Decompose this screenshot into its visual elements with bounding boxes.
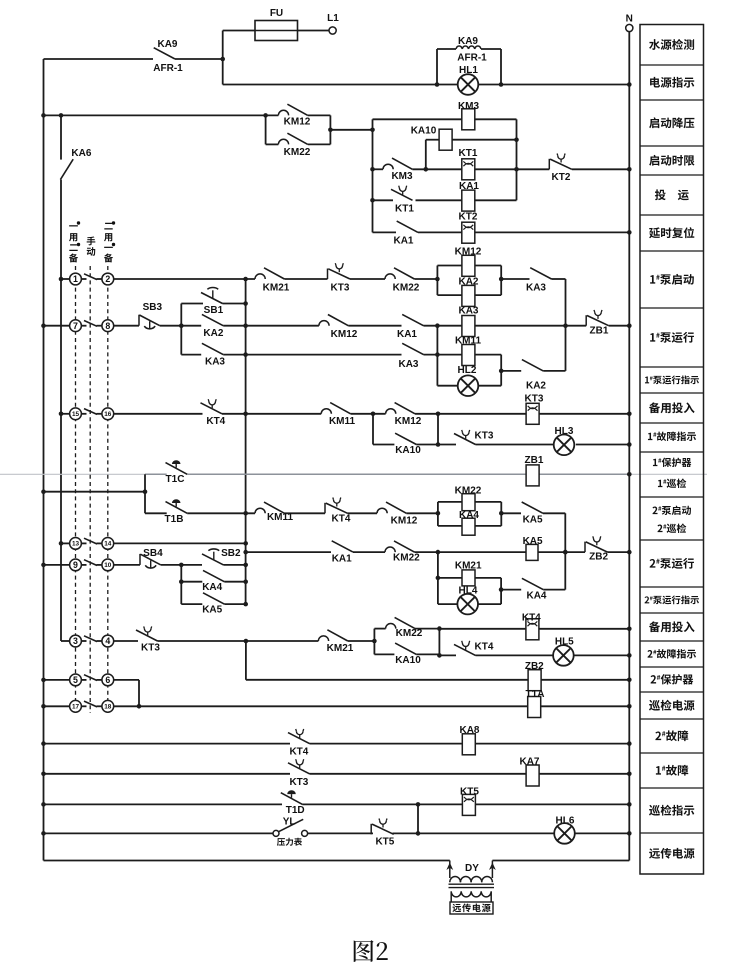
svg-text:KA1: KA1: [459, 181, 479, 192]
terminal 15: [70, 408, 82, 420]
contact KA10 rung F: [395, 433, 416, 444]
wire vert x437 pump2: [437, 552, 439, 604]
contact KM21: [255, 268, 284, 279]
wire N bus: [628, 32, 630, 861]
svg-text:KA9: KA9: [458, 36, 478, 47]
svg-text:KA9: KA9: [157, 39, 177, 50]
coil KA2: [462, 285, 475, 306]
wire rung KM12 block: [44, 114, 331, 116]
svg-text:17: 17: [72, 704, 80, 711]
label selector mode manual: [87, 236, 96, 245]
contact KA5 branch: [203, 593, 224, 604]
lamp HL4: [457, 594, 478, 615]
contact KA3 rung A: [530, 268, 551, 279]
wire rung B: [114, 325, 630, 327]
wire terminal stubs 1-2: [81, 278, 86, 280]
junction block3 bottom: [437, 653, 442, 658]
coil KT2: [462, 222, 475, 243]
contact selector 17-18: [84, 701, 97, 707]
contact KM12 T1B: [377, 502, 406, 513]
wire T1 feeder: [44, 474, 146, 513]
wire terminal stubs 7-8: [81, 325, 86, 327]
svg-text:KM12: KM12: [284, 117, 311, 128]
contact KM11 T1B: [255, 502, 284, 513]
wire KM12 coil branch: [437, 265, 501, 267]
junction KM block left: [263, 113, 268, 118]
svg-text:10: 10: [104, 562, 112, 569]
wire artifact line: [0, 473, 707, 475]
svg-text:KA1: KA1: [397, 329, 417, 340]
wire vert x372: [372, 119, 374, 232]
svg-text:ZB1: ZB1: [525, 455, 544, 466]
contact YL (pressure): [273, 830, 279, 836]
contact KM22 rung 3-4: [386, 617, 415, 628]
svg-text:T1D: T1D: [286, 805, 305, 816]
wire rung KA7: [44, 773, 630, 775]
svg-text:T1B: T1B: [165, 514, 184, 525]
label box standby2: [649, 621, 695, 632]
junction block2 out: [499, 511, 504, 516]
lamp HL2: [458, 375, 479, 396]
wire vert x516: [516, 119, 518, 200]
junction xV KA4: [243, 579, 248, 584]
transformer core: [449, 883, 495, 885]
junction xV 13-14: [243, 541, 248, 546]
coil KA4: [462, 518, 475, 535]
junction N KT4: [627, 627, 632, 632]
label box delay reset: [649, 227, 694, 238]
wire t7 left: [44, 325, 70, 327]
wire left bus L: [43, 59, 45, 861]
label box in service: [655, 189, 689, 200]
terminal 18: [102, 700, 114, 712]
junction KM block out: [328, 128, 333, 133]
wire rung C: [246, 354, 502, 356]
terminal 1: [70, 273, 82, 285]
wire KA10 coil rung: [426, 140, 517, 170]
contact KM11 rung E: [321, 403, 350, 414]
contact KT4 rung E: [201, 399, 223, 414]
junction N rung B: [627, 323, 632, 328]
wire block out: [330, 129, 372, 131]
coil KA10: [439, 129, 452, 150]
svg-text:KT1: KT1: [395, 203, 414, 214]
wire rung YL: [44, 832, 630, 834]
svg-text:KA6: KA6: [71, 148, 91, 159]
contact selector 5-6: [84, 675, 97, 681]
svg-text:KA10: KA10: [395, 445, 421, 456]
junction N HL1: [627, 82, 632, 87]
svg-text:KA3: KA3: [398, 359, 418, 370]
svg-text:KA10: KA10: [411, 126, 437, 137]
junction 6-18: [137, 704, 142, 709]
svg-text:9: 9: [73, 560, 78, 570]
label box water detect: [649, 39, 694, 50]
svg-text:KM22: KM22: [396, 628, 423, 639]
wire KA2 coil branch: [437, 294, 501, 296]
svg-text:KT5: KT5: [375, 837, 394, 848]
svg-text:8: 8: [105, 321, 110, 331]
svg-text:13: 13: [72, 541, 80, 548]
wire KA3 contact: [501, 278, 565, 280]
svg-text:KA4: KA4: [526, 591, 546, 602]
contact KA1 rung B: [402, 314, 423, 325]
terminal 7: [70, 320, 82, 332]
contact KM22 rung B2: [385, 541, 414, 552]
junction N rung E: [627, 412, 632, 417]
svg-text:KM22: KM22: [284, 147, 311, 158]
label box pump2 startb: [657, 523, 686, 533]
junction x372 KM3 rung: [370, 167, 375, 172]
contact KM3: [383, 158, 412, 169]
coil KT5: [462, 794, 475, 815]
svg-text:AFR-1: AFR-1: [457, 53, 487, 64]
transformer DY primary: [450, 876, 461, 882]
label box power ind: [650, 77, 694, 88]
junction N KT5: [627, 802, 632, 807]
terminal 16: [102, 408, 114, 420]
terminal 8: [102, 320, 114, 332]
svg-text:HL2: HL2: [458, 365, 477, 376]
svg-text:KT3: KT3: [141, 643, 160, 654]
junction rung B2 coil: [436, 550, 441, 555]
svg-text:T1A: T1A: [526, 689, 545, 700]
label box pump1 start: [650, 274, 694, 285]
junction T1 split: [143, 489, 148, 494]
contact SB2: [202, 549, 224, 565]
svg-text:6: 6: [105, 675, 110, 685]
coil KA8: [462, 734, 475, 755]
terminal 4: [102, 635, 114, 647]
coil KM11: [462, 345, 475, 366]
junction KA10 tap: [424, 167, 429, 172]
svg-text:N: N: [626, 14, 633, 25]
label YL chinese: [277, 838, 302, 846]
label box standby1: [649, 402, 695, 413]
contact SB4: [140, 554, 161, 568]
wire t15 left: [61, 413, 70, 415]
wire terminal stubs 5-6: [81, 679, 86, 681]
contact selector 15-16: [84, 409, 97, 415]
svg-text:KA2: KA2: [458, 276, 478, 287]
wire KA5 contact: [501, 512, 565, 514]
svg-text:KA1: KA1: [393, 235, 413, 246]
svg-text:KT3: KT3: [289, 777, 308, 788]
svg-text:KA3: KA3: [458, 305, 478, 316]
contact KA9 AFR-1: [154, 48, 175, 59]
contact selector 9-10: [84, 560, 97, 566]
wire terminal stubs 13-14: [81, 542, 86, 544]
contact KM12: [278, 104, 307, 115]
svg-text:KM21: KM21: [455, 561, 482, 572]
junction x565 rung B2: [563, 550, 568, 555]
svg-text:4: 4: [105, 636, 110, 646]
svg-text:KM12: KM12: [391, 516, 418, 527]
wire vert x501 pump1: [500, 355, 502, 386]
label box pump2 starta: [652, 506, 690, 515]
wire rung 5-6: [44, 680, 140, 706]
svg-text:KM12: KM12: [395, 416, 422, 427]
contact KA1 rung B2: [332, 541, 353, 552]
junction x516 KT1: [514, 167, 519, 172]
contact KM12 rung B: [319, 315, 348, 326]
junction N HL6: [627, 831, 632, 836]
svg-text:KA2: KA2: [203, 328, 223, 339]
svg-text:KM3: KM3: [391, 171, 413, 182]
junction KA6 branch: [59, 113, 64, 118]
junction x565 B2 tap: [563, 550, 568, 555]
junction bus 9: [41, 563, 46, 568]
label box start stepdown: [649, 117, 694, 128]
junction x61 t15: [59, 412, 64, 417]
coil KA3: [462, 316, 475, 337]
contact KM12 rung E: [386, 403, 415, 414]
svg-text:KT4: KT4: [332, 514, 351, 525]
junction bus KA8: [41, 741, 46, 746]
svg-text:KM11: KM11: [329, 416, 356, 427]
svg-text:KT2: KT2: [552, 172, 571, 183]
svg-text:5: 5: [73, 675, 78, 685]
svg-text:KT1: KT1: [459, 148, 478, 159]
junction x516 KA10: [514, 137, 519, 142]
junction bus YL: [41, 831, 46, 836]
coil T1A: [528, 697, 541, 718]
coil KT4: [526, 619, 539, 640]
svg-text:7: 7: [73, 321, 78, 331]
wire terminal stubs 15-16: [81, 413, 86, 415]
contact ZB1 (protector): [586, 310, 609, 326]
wire KA2 bypass: [501, 370, 565, 372]
wire rung 3-4: [61, 640, 374, 642]
label box fault2: [655, 730, 688, 741]
coil ZB1: [526, 465, 539, 486]
label box remote power: [649, 848, 694, 859]
wire xV2 drop: [246, 641, 629, 680]
wire fuse feed: [223, 30, 329, 32]
svg-text:KT4: KT4: [475, 641, 494, 652]
svg-text:KA8: KA8: [459, 725, 479, 736]
terminal 3: [70, 635, 82, 647]
junction rung C coil: [435, 352, 440, 357]
junction xV SB1: [243, 301, 248, 306]
junction bus KA7: [41, 772, 46, 777]
contact KA2: [202, 314, 223, 325]
wire KT1 contact rung: [373, 199, 517, 201]
contact selector 1-2: [84, 274, 97, 280]
wire KT4 coil rung: [439, 628, 629, 630]
wire KA4 branch: [181, 581, 245, 583]
wire rung A: [114, 278, 438, 280]
junction block2 in: [436, 511, 441, 516]
svg-text:KA5: KA5: [523, 536, 543, 547]
svg-text:KT3: KT3: [525, 393, 544, 404]
lamp HL5: [553, 645, 574, 666]
wire KA3 branch: [181, 354, 245, 356]
junction KA10 loop right: [436, 412, 441, 417]
svg-text:KA5: KA5: [202, 605, 222, 616]
transformer DY feeders: [449, 861, 451, 879]
svg-text:ZB1: ZB1: [590, 326, 609, 337]
junction xV rung B: [243, 323, 248, 328]
contact KT1 (NC time): [391, 186, 413, 201]
wire KM22 loop: [266, 115, 331, 144]
junction N ZB1: [627, 472, 632, 477]
junction bus t7: [41, 323, 46, 328]
wire KA1 contact rung: [373, 231, 630, 233]
wire vert x437 pump1: [436, 326, 438, 386]
wire rung 17-18: [44, 705, 630, 707]
contact KA10 rung 3-4: [395, 643, 416, 654]
contact KT3 (NC time): [328, 263, 351, 279]
junction KA2 tap: [499, 369, 504, 374]
junction N KA8: [627, 741, 632, 746]
contact T1C: [166, 460, 188, 474]
contact KA3 rung C: [402, 343, 423, 354]
label box pump1 run ind: [645, 375, 699, 384]
junction N T1A: [627, 704, 632, 709]
wire rung E: [114, 413, 630, 415]
junction N HL5: [627, 653, 632, 658]
wire terminal stubs 9-10: [81, 564, 86, 566]
contact KA3 branch: [202, 343, 223, 354]
wire SB4 bracket: [180, 565, 182, 604]
coil KA9 (winding): [456, 46, 462, 49]
svg-text:KA10: KA10: [395, 655, 421, 666]
svg-text:2: 2: [105, 274, 110, 284]
coil KM21: [462, 570, 475, 586]
wire KM3 coil rung: [373, 118, 517, 120]
junction xV 9-10: [243, 563, 248, 568]
svg-text:KM21: KM21: [263, 283, 290, 294]
contact SB3: [139, 315, 160, 329]
junction block3 top: [437, 626, 442, 631]
svg-text:KA3: KA3: [526, 283, 546, 294]
svg-text:KM12: KM12: [331, 329, 358, 340]
contact KT4 NC HL5: [454, 641, 476, 656]
contact KA5 rung: [522, 502, 543, 513]
label box protector1a: [653, 458, 691, 467]
contact ZB2 (protector): [585, 536, 608, 552]
wire KT5 vert: [417, 804, 419, 833]
junction YL KT5: [416, 831, 421, 836]
label selector dots 2: [112, 221, 115, 224]
contact selector 3-4: [84, 636, 97, 642]
wire SB bracket: [180, 304, 182, 355]
contact KA4 bypass: [522, 578, 543, 589]
junction xV rung E: [243, 412, 248, 417]
wire rung T1C: [145, 473, 629, 475]
junction bus 5: [41, 678, 46, 683]
coil KM3: [462, 109, 475, 130]
fuse FU: [255, 21, 298, 41]
junction xV rung B2: [243, 550, 248, 555]
svg-text:ZB2: ZB2: [589, 552, 608, 563]
svg-text:KT3: KT3: [475, 430, 494, 441]
contact KA2 bypass: [522, 360, 543, 371]
contact KT2 (NC time): [549, 154, 572, 170]
label selector dots 1: [77, 221, 80, 224]
contact T1B: [166, 499, 188, 513]
transformer DY secondary: [451, 891, 461, 897]
contact selector 13-14: [84, 538, 97, 544]
svg-text:KT5: KT5: [460, 787, 479, 798]
junction KT5 tap: [416, 802, 421, 807]
junction x372 in: [370, 128, 375, 133]
svg-text:KM11: KM11: [267, 512, 294, 523]
junction N rung F: [627, 442, 632, 447]
junction xV2 rung 3-4: [244, 639, 249, 644]
wire drop to rung B: [565, 279, 567, 371]
label selector mode 1: [69, 225, 78, 226]
terminal L1: [329, 27, 336, 34]
junction N ZB2: [627, 678, 632, 683]
junction KA10 loop left: [371, 412, 376, 417]
contact SB1: [201, 287, 223, 303]
svg-text:T1C: T1C: [166, 474, 185, 485]
svg-text:KM22: KM22: [393, 553, 420, 564]
label box patrol power: [649, 700, 695, 711]
svg-text:FU: FU: [270, 8, 283, 19]
svg-text:KT2: KT2: [459, 212, 478, 223]
terminal 6: [102, 674, 114, 686]
svg-text:KM21: KM21: [327, 643, 354, 654]
svg-text:1: 1: [73, 274, 78, 284]
coil KT3: [526, 403, 539, 424]
svg-text:18: 18: [104, 704, 112, 711]
junction rung F: [436, 442, 441, 447]
contact KT4 T1B: [325, 498, 348, 514]
wire rung F: [438, 444, 629, 446]
wire KA9 coil loop: [437, 49, 501, 85]
coil KA1: [462, 190, 475, 211]
wire rung T1D: [44, 803, 630, 805]
label selector mode 2: [104, 223, 112, 230]
label box pump1 run: [650, 332, 694, 343]
box remote power: [450, 902, 493, 914]
junction KM21 tap: [436, 576, 441, 581]
svg-text:KT4: KT4: [522, 612, 541, 623]
terminal 17: [70, 700, 82, 712]
svg-text:DY: DY: [465, 863, 479, 874]
wire KA5 branch: [181, 603, 245, 605]
contact KM21 rung 3-4: [318, 630, 347, 641]
wire block3: [374, 629, 439, 656]
junction x61 t1: [59, 277, 64, 282]
label box protector1b: [658, 478, 686, 488]
wire rung 13-14: [61, 542, 246, 544]
junction SB2 bracket: [179, 563, 184, 568]
label box fault1 ind: [648, 432, 696, 441]
svg-text:KA5: KA5: [523, 515, 543, 526]
svg-text:ZB2: ZB2: [525, 661, 544, 672]
contact KT3 rung KA7: [288, 759, 310, 774]
svg-text:KM12: KM12: [455, 247, 482, 258]
svg-text:SB2: SB2: [221, 548, 241, 559]
junction x565 rung B: [563, 323, 568, 328]
svg-text:YL: YL: [283, 816, 296, 827]
junction xV T1B: [243, 511, 248, 516]
terminal 10: [102, 559, 114, 571]
junction N KA7: [627, 772, 632, 777]
svg-text:KM22: KM22: [455, 486, 482, 497]
contact KT3 NC rung F: [454, 430, 476, 445]
selector dashed lines: [75, 266, 77, 713]
svg-text:14: 14: [104, 541, 112, 548]
junction rung B coil: [435, 323, 440, 328]
contact KA6: [60, 159, 73, 179]
junction bracket KA4: [179, 579, 184, 584]
junction fuse/KA9: [220, 57, 225, 62]
